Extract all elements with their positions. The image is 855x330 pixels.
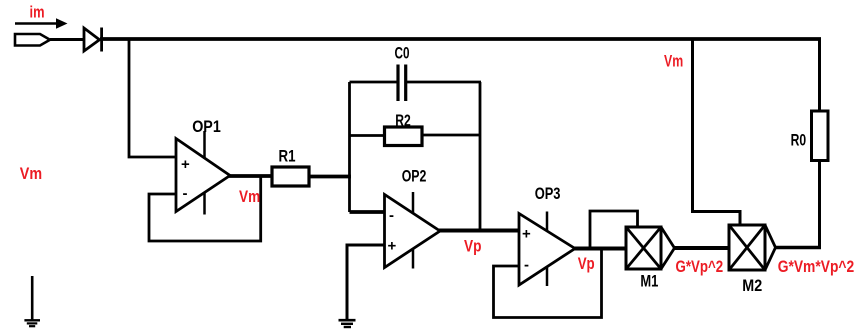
svg-text:G*Vp^2: G*Vp^2 (676, 257, 724, 276)
diode D1 (84, 28, 102, 52)
svg-text:OP1: OP1 (192, 117, 221, 136)
op-amp OP2 (385, 192, 441, 269)
svg-text:Vm: Vm (239, 187, 260, 206)
op-amp OP3 (519, 212, 575, 287)
wire left loop vertical (348, 82, 351, 212)
ground at OP2 (339, 320, 356, 327)
wire R2 to right loop (422, 134, 481, 137)
input terminal (15, 34, 50, 46)
wire top main (100, 37, 821, 41)
wire OP3 feedback (494, 249, 602, 318)
resistor R1 (272, 167, 309, 186)
svg-text:OP3: OP3 (535, 184, 561, 203)
svg-text:-: - (389, 207, 394, 224)
wire M1 to M2 (675, 246, 731, 250)
svg-text:Vm: Vm (664, 52, 683, 70)
svg-text:Vm: Vm (20, 164, 42, 183)
wire to OP2 plus input (347, 245, 386, 319)
svg-text:OP2: OP2 (402, 167, 427, 186)
svg-text:Vp: Vp (464, 237, 482, 256)
multiplier M2 (729, 225, 776, 270)
wire OP1 output (229, 174, 272, 178)
svg-text:im: im (30, 3, 45, 22)
svg-text:-: - (183, 185, 188, 202)
resistor R2 (385, 127, 423, 146)
wire loop to M1 top (590, 211, 638, 249)
wire Vm branch to M2 (693, 39, 741, 226)
svg-text:R1: R1 (279, 147, 296, 166)
svg-text:M2: M2 (742, 276, 762, 295)
svg-text:M1: M1 (640, 272, 658, 291)
wire to OP2 minus input (350, 210, 387, 214)
wire R1 to node (309, 175, 351, 179)
wire right loop vertical (479, 82, 482, 231)
wire R0 down to M2 output (818, 161, 821, 250)
resistor R0 (812, 111, 829, 161)
wire to R2 (350, 134, 385, 137)
wire top right down to R0 (818, 39, 821, 112)
wire terminal to diode (50, 38, 84, 41)
wire drop to OP1 plus input (129, 39, 176, 157)
op-amp OP1 (176, 131, 230, 215)
svg-text:-: - (524, 257, 529, 274)
wire M2 output (776, 246, 822, 250)
svg-text:+: + (388, 238, 397, 255)
svg-text:C0: C0 (395, 44, 410, 63)
svg-text:+: + (522, 226, 531, 243)
ground bottom left (24, 276, 40, 326)
current arrow (15, 18, 68, 29)
wire top loop to C0 (350, 81, 398, 84)
svg-text:R2: R2 (395, 111, 411, 130)
wire OP2 output to OP3 (439, 229, 520, 233)
svg-text:R0: R0 (791, 131, 807, 150)
wire OP3 output (574, 247, 627, 251)
wire C0 to right loop (406, 81, 481, 84)
capacitor C0 (398, 65, 406, 102)
wire OP1 feedback (149, 176, 261, 241)
svg-text:G*Vm*Vp^2: G*Vm*Vp^2 (778, 257, 855, 276)
svg-text:+: + (181, 156, 190, 173)
svg-text:Vp: Vp (578, 254, 595, 273)
multiplier M1 (626, 227, 675, 269)
